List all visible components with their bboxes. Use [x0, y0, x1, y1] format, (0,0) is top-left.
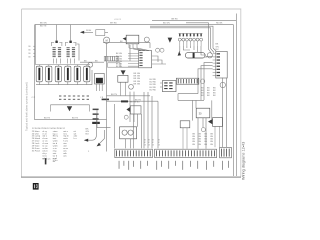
connector block P1 with arrow	[51, 105, 90, 112]
legend header row	[32, 128, 66, 130]
wire: lower link	[178, 94, 204, 101]
control box B2	[196, 108, 210, 118]
svg-text:BU TN: BU TN	[72, 118, 79, 120]
motor M1	[104, 37, 110, 56]
connector X5	[139, 51, 152, 68]
fuse F5	[74, 65, 80, 85]
terminal circle E7	[201, 128, 205, 132]
wire: row feeds	[180, 46, 206, 55]
label cols LC2	[192, 133, 214, 145]
svg-text:BU TN: BU TN	[40, 25, 47, 27]
terminal circle E8	[124, 115, 128, 119]
wire: upper link	[103, 43, 150, 48]
terminal circle E4	[207, 53, 212, 58]
svg-text:GN: GN	[216, 46, 220, 48]
arrow A4	[178, 51, 181, 56]
svg-text:BU: BU	[86, 134, 89, 136]
wire: connector C2 link	[76, 44, 79, 61]
pin numbers row 2	[59, 99, 89, 100]
connector C1	[51, 25, 62, 64]
svg-text:BK GN: BK GN	[40, 23, 47, 25]
label cluster LC1	[134, 73, 157, 91]
wire: main top bus	[35, 25, 234, 120]
connector C2	[65, 25, 76, 64]
connector strip X1	[115, 149, 153, 157]
label grid LG1	[201, 87, 216, 97]
arrow A3	[97, 130, 105, 146]
relay K3 with arrow	[126, 106, 141, 114]
dark tick	[45, 158, 47, 164]
svg-text:BU: BU	[216, 49, 219, 51]
svg-text:WT RD: WT RD	[110, 23, 117, 25]
relay K1	[95, 73, 105, 91]
relay K2	[123, 35, 139, 48]
fuse F3	[55, 65, 61, 85]
riser labels	[144, 139, 160, 146]
wire: riser set	[130, 92, 158, 149]
legend column 5	[74, 130, 78, 140]
page border frame	[22, 9, 241, 177]
small box B3	[180, 121, 190, 149]
fuse F2	[46, 65, 52, 85]
wire: upper right feed	[152, 14, 236, 177]
svg-text:BK GN: BK GN	[116, 66, 123, 68]
wire: right bus drops	[223, 78, 227, 147]
connector row CR1	[178, 33, 202, 46]
wire: X5 right stubs	[152, 56, 166, 64]
valve V2 with arrow	[208, 118, 222, 148]
connector X4 (tall)	[213, 51, 228, 78]
svg-text:BU TN: BU TN	[44, 118, 51, 120]
valve V1 with arrow	[118, 70, 128, 95]
connector strip CR2	[176, 78, 198, 84]
svg-text:BU RD: BU RD	[150, 89, 157, 91]
terminal ticks T1	[92, 109, 100, 124]
hatch strip H1	[104, 56, 119, 61]
arrow A1 (to earth)	[80, 30, 93, 34]
wire: fuse row to mid rail	[80, 61, 104, 63]
fuse row bus top	[36, 25, 91, 65]
svg-text:RD BK: RD BK	[216, 23, 223, 25]
chapter tab 12	[33, 183, 39, 190]
legend column 4	[63, 130, 69, 158]
strip pin labels	[119, 161, 229, 170]
fuse F1	[36, 65, 42, 85]
svg-text:BU TN: BU TN	[111, 94, 118, 96]
svg-text:Typical anti-theft alarm syste: Typical anti-theft alarm system (continu…	[25, 82, 29, 131]
svg-text:31 Feed: 31 Feed	[32, 150, 41, 152]
wire: lamp drops	[115, 104, 142, 148]
pin numbers row 1	[59, 95, 89, 96]
wire: links	[108, 45, 138, 67]
connector end box X3	[220, 147, 232, 157]
terminal circles E9	[156, 48, 160, 52]
connector strip X2	[155, 149, 217, 157]
connector box P2	[160, 81, 176, 92]
svg-text:H33028: H33028	[114, 19, 122, 21]
label col R1	[216, 44, 220, 52]
wire: mid link 1	[107, 96, 159, 101]
wire: nested bus corners right	[150, 23, 216, 54]
svg-text:GN RD: GN RD	[171, 19, 178, 21]
svg-text:BU GN: BU GN	[163, 23, 170, 25]
small box B1	[108, 63, 121, 67]
fuse F7	[185, 53, 205, 58]
frame bottom edge	[21, 176, 241, 178]
wire: mid bus	[35, 119, 107, 121]
svg-text:BK GN: BK GN	[134, 83, 141, 85]
terminal circle E2	[144, 37, 149, 42]
junction box J1	[96, 30, 108, 36]
wire: X4 feeds	[198, 56, 213, 100]
svg-text:W BU: W BU	[86, 30, 92, 32]
svg-text:te sw un: te sw un	[42, 157, 51, 160]
legend column 1	[32, 131, 41, 153]
X5 stubs left	[128, 53, 139, 66]
wire: K2 diagonals	[129, 48, 149, 51]
junction J2	[102, 99, 109, 101]
legend column 3	[53, 130, 59, 162]
terminal circle E5	[200, 79, 204, 83]
svg-text:M: M	[106, 39, 108, 42]
fuse F6	[84, 65, 90, 85]
wire: misc right verticals	[193, 100, 212, 148]
terminal circle E6	[220, 82, 225, 87]
legend tail rows	[42, 157, 57, 162]
small note text	[86, 128, 90, 135]
legend column 2	[42, 131, 49, 160]
arrow A2	[84, 114, 97, 142]
X5 labels	[116, 53, 123, 68]
lamp unit L1	[120, 127, 137, 139]
svg-text:Wiring diagrams 12•43: Wiring diagrams 12•43	[242, 142, 246, 180]
terminal circle E1	[88, 62, 93, 67]
terminal circle E3	[129, 84, 134, 89]
fuse F4	[65, 65, 71, 85]
svg-text:BK GN BU: BK GN BU	[130, 102, 140, 104]
wire: tick rail	[97, 110, 111, 128]
wire: mid vertical rail	[106, 56, 108, 152]
header bar	[121, 100, 128, 102]
fuse row bus bottom	[36, 70, 92, 85]
diode D1	[168, 38, 173, 43]
